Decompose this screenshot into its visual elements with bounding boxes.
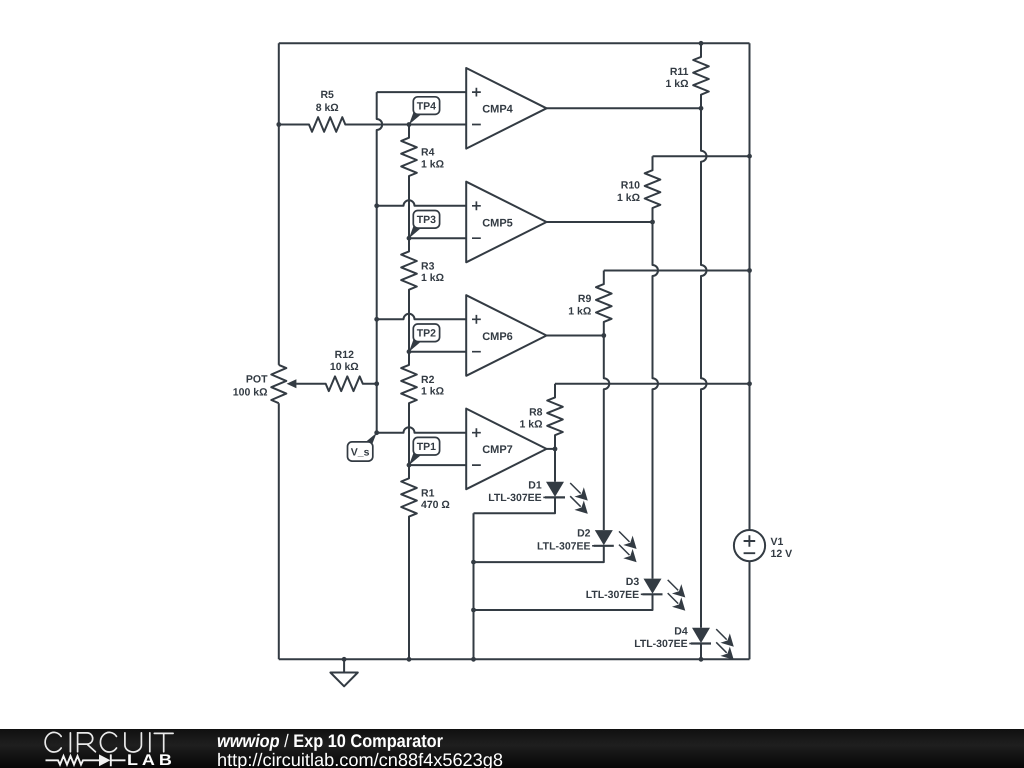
svg-text:R3: R3 <box>421 260 435 272</box>
pin polarity marks CMP4 <box>472 88 755 554</box>
op-amp U CMP6 <box>466 295 546 376</box>
svg-text:R5: R5 <box>320 89 334 101</box>
ground <box>330 659 357 686</box>
svg-text:1 kΩ: 1 kΩ <box>421 386 444 398</box>
svg-text:10 kΩ: 10 kΩ <box>330 361 359 373</box>
svg-text:POT: POT <box>246 374 268 386</box>
svg-text:1 kΩ: 1 kΩ <box>568 305 591 317</box>
resistor R10 and D3 column with hops <box>645 156 661 578</box>
test point TP1 <box>409 437 440 465</box>
wire top rail <box>279 42 750 44</box>
svg-text:V_s: V_s <box>351 446 370 458</box>
svg-text:R10: R10 <box>621 180 640 192</box>
LED D3 <box>644 579 662 594</box>
svg-text:R12: R12 <box>335 349 354 361</box>
LED D1 <box>546 482 710 643</box>
wire left rail lower <box>278 403 280 659</box>
svg-text:100 kΩ: 100 kΩ <box>233 387 268 399</box>
op-amp U CMP5 <box>466 182 546 263</box>
svg-text:1 kΩ: 1 kΩ <box>617 192 640 204</box>
pin polarity marks CMP5 <box>472 201 481 238</box>
svg-text:TP1: TP1 <box>417 441 436 453</box>
wire D4 cathode stub <box>700 644 702 660</box>
op-amp U CMP4 <box>466 68 546 489</box>
wire CMP6 output <box>547 335 604 337</box>
svg-text:470 Ω: 470 Ω <box>421 499 450 511</box>
pin polarity marks CMP6 <box>472 315 481 352</box>
svg-text:R9: R9 <box>578 293 592 305</box>
resistor R9 and D2 column with hop <box>596 271 612 531</box>
D4 photon arrows <box>716 629 733 646</box>
resistor R11 and D4 column with hops <box>693 43 709 628</box>
svg-text:1 kΩ: 1 kΩ <box>421 272 444 284</box>
LED D2 <box>595 530 613 545</box>
CircuitLab logo CIRCUIT <box>45 732 173 752</box>
wire D1 cathode return <box>474 497 556 513</box>
svg-text:LTL-307EE: LTL-307EE <box>537 540 590 552</box>
potentiometer POT body <box>271 365 286 403</box>
POT wiper arrow <box>287 379 297 388</box>
wire CMP4 minus input <box>409 124 466 126</box>
wire CMP4 output <box>547 107 702 109</box>
resistor R5 <box>279 117 409 132</box>
pin polarity marks CMP7 <box>472 428 481 465</box>
svg-text:CMP5: CMP5 <box>482 217 513 229</box>
resistor ladder R4 R3 R2 R1 column <box>401 125 417 660</box>
wire CMP5 minus input <box>409 237 466 239</box>
wire bottom rail <box>279 658 750 660</box>
wire D2 cathode return <box>474 546 604 562</box>
op-amp U CMP7 <box>466 409 546 490</box>
D3 photon arrows <box>668 580 685 597</box>
wire left rail upper <box>278 43 280 365</box>
wire LED return column <box>473 513 475 659</box>
svg-text:12 V: 12 V <box>771 548 793 560</box>
wire CMP5 output <box>547 221 653 223</box>
D2 photon arrows <box>619 531 636 548</box>
svg-text:TP3: TP3 <box>417 214 436 226</box>
wire CMP6 plus input with hop <box>377 314 467 319</box>
wire CMP6 minus input <box>409 351 466 353</box>
wire CMP7 output <box>547 448 556 450</box>
wire CMP7 plus input with hop <box>377 427 467 433</box>
wire D3 cathode return <box>474 594 653 610</box>
svg-text:D2: D2 <box>577 528 591 540</box>
wire right supply rail upper <box>749 43 751 530</box>
svg-text:R11: R11 <box>670 66 689 78</box>
CircuitLab logo resistor-diode glyph <box>46 754 126 766</box>
D1 photon arrows <box>570 483 587 500</box>
svg-text:CMP7: CMP7 <box>482 444 513 456</box>
wire R8 top row <box>555 383 750 385</box>
test point TP4 <box>409 97 440 125</box>
svg-text:R4: R4 <box>421 147 435 159</box>
svg-text:R1: R1 <box>421 487 435 499</box>
LED D4 <box>692 628 710 643</box>
svg-text:R8: R8 <box>529 406 543 418</box>
test point TP3 <box>409 211 440 239</box>
svg-text:CMP4: CMP4 <box>482 104 513 116</box>
svg-text:V1: V1 <box>771 536 784 548</box>
wire CMP4 plus input <box>377 91 467 93</box>
resistor R8 and D1 column <box>547 384 563 482</box>
svg-text:1 kΩ: 1 kΩ <box>665 78 688 90</box>
V1 polarity marks <box>744 535 756 553</box>
svg-text:TP2: TP2 <box>417 328 436 340</box>
resistor R12 <box>296 376 377 391</box>
voltage source V1 <box>734 530 765 561</box>
LED label leader dashes <box>543 497 691 643</box>
wire CMP7 minus input <box>409 464 466 466</box>
svg-text:1 kΩ: 1 kΩ <box>421 159 444 171</box>
wire CMP5 plus input with hop <box>377 200 467 206</box>
svg-text:R2: R2 <box>421 374 435 386</box>
svg-text:LTL-307EE: LTL-307EE <box>634 638 687 650</box>
svg-text:TP4: TP4 <box>417 100 436 112</box>
svg-text:D1: D1 <box>528 479 542 491</box>
svg-text:1 kΩ: 1 kΩ <box>519 419 542 431</box>
wire R10 top row <box>653 155 750 157</box>
svg-text:CMP6: CMP6 <box>482 331 513 343</box>
svg-text:8 kΩ: 8 kΩ <box>316 102 339 114</box>
svg-text:LTL-307EE: LTL-307EE <box>586 589 639 601</box>
wire R9 top row <box>604 270 750 272</box>
wire right supply rail lower <box>749 561 751 659</box>
svg-text:LTL-307EE: LTL-307EE <box>488 492 541 504</box>
test point TP2 <box>409 324 440 352</box>
node V_s flag <box>348 433 377 461</box>
wire V_s bus with hop over R5 <box>377 92 383 433</box>
svg-text:D4: D4 <box>674 625 688 637</box>
LED cathode bars <box>545 497 711 643</box>
svg-text:D3: D3 <box>626 576 640 588</box>
